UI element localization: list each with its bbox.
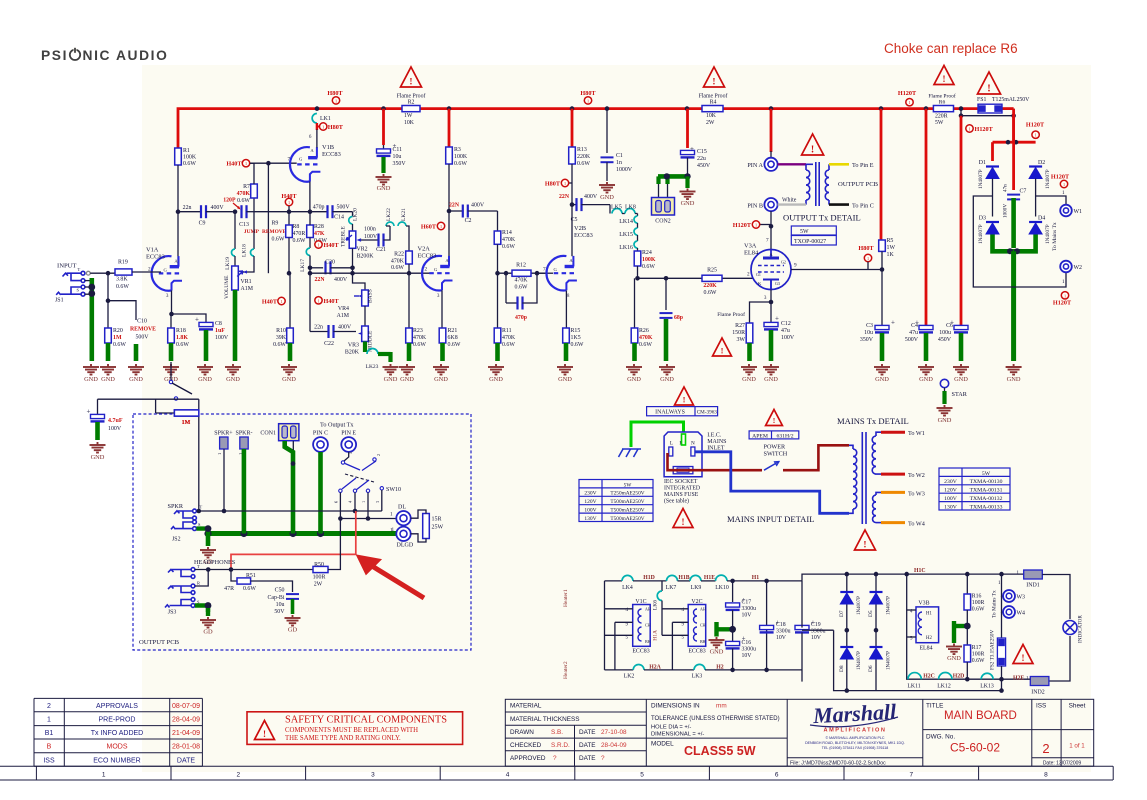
svg-text:!: !	[987, 84, 990, 95]
svg-text:470K: 470K	[514, 278, 528, 284]
svg-text:3.8K: 3.8K	[116, 277, 128, 283]
svg-text:SPKR-: SPKR-	[235, 431, 252, 437]
svg-text:0.6W: 0.6W	[448, 342, 461, 348]
svg-text:LK19: LK19	[225, 257, 231, 270]
earth wire green	[631, 422, 684, 447]
svg-text:GND: GND	[600, 194, 614, 201]
svg-text:MAINS INPUT DETAIL: MAINS INPUT DETAIL	[727, 514, 814, 524]
svg-text:MAINS FUSE: MAINS FUSE	[664, 492, 699, 498]
bus junction	[447, 106, 452, 111]
svg-text:TXMA-00131: TXMA-00131	[970, 488, 1003, 494]
tube V1C heater	[633, 605, 651, 647]
svg-text:JUMP: JUMP	[244, 229, 260, 235]
svg-text:IND1: IND1	[1026, 583, 1039, 589]
green gnd V3B	[954, 624, 967, 628]
test point H80T V3A anode	[864, 254, 871, 261]
svg-text:BH: BH	[700, 639, 706, 644]
warning triangle above FS1	[977, 72, 1000, 94]
svg-text:Heater1: Heater1	[563, 589, 569, 607]
svg-text:H2E: H2E	[1013, 676, 1024, 682]
svg-text:Flame Proof: Flame Proof	[397, 93, 426, 100]
ground C4	[918, 364, 934, 375]
svg-text:LK13: LK13	[980, 684, 994, 690]
green JS2 sleeve	[196, 529, 208, 534]
svg-text:470K: 470K	[413, 335, 427, 341]
svg-text:D1: D1	[979, 160, 986, 166]
bridge bottom green bar	[993, 235, 1036, 252]
svg-text:GND: GND	[627, 376, 641, 383]
indicator right wire	[1042, 575, 1070, 620]
bus junction	[924, 106, 929, 111]
svg-text:470K: 470K	[639, 335, 653, 341]
svg-text:GND: GND	[91, 454, 105, 461]
svg-text:C50: C50	[275, 588, 285, 594]
svg-text:LK11: LK11	[907, 684, 920, 690]
svg-text:25W: 25W	[432, 525, 444, 531]
resistor R3	[448, 109, 451, 147]
svg-text:47u: 47u	[781, 328, 790, 334]
resistor R11	[497, 273, 499, 328]
test point H120T W2	[1061, 292, 1068, 299]
svg-text:Flame Proof: Flame Proof	[928, 93, 956, 100]
svg-text:47u: 47u	[909, 330, 918, 336]
wire HP T row	[195, 569, 313, 571]
svg-text:R25: R25	[707, 268, 717, 274]
svg-text:H1E: H1E	[704, 575, 715, 581]
svg-text:C8: C8	[215, 321, 222, 327]
input sleeve green	[90, 278, 95, 361]
resistor R26	[634, 278, 636, 328]
svg-text:3: 3	[375, 501, 380, 503]
svg-text:0.6W: 0.6W	[272, 237, 285, 243]
svg-text:100V: 100V	[944, 496, 958, 502]
svg-text:To Pin C: To Pin C	[852, 203, 874, 210]
svg-text:H1A: H1A	[653, 630, 659, 641]
ground C11	[376, 174, 392, 185]
svg-text:1K5: 1K5	[571, 335, 581, 341]
svg-text:Flame Proof: Flame Proof	[699, 93, 728, 100]
svg-text:R5: R5	[887, 238, 894, 244]
svg-text:V1C: V1C	[635, 599, 646, 605]
svg-text:R21: R21	[448, 328, 458, 334]
resistor R13	[571, 109, 574, 147]
capacitor C2	[449, 210, 463, 212]
svg-text:SAFETY CRITICAL COMPONENTS: SAFETY CRITICAL COMPONENTS	[285, 715, 447, 726]
wire R50 to SW10	[328, 519, 340, 570]
svg-text:IND2: IND2	[1031, 690, 1044, 696]
svg-text:1 of 1: 1 of 1	[1069, 743, 1085, 750]
svg-text:5: 5	[348, 452, 353, 454]
svg-text:H120T: H120T	[898, 90, 917, 97]
svg-text:0.6W: 0.6W	[413, 342, 426, 348]
svg-text:470p: 470p	[515, 315, 527, 321]
links LK22 LK21	[383, 226, 390, 240]
wire to V2B grid	[537, 272, 553, 274]
svg-text:R17: R17	[972, 645, 982, 651]
svg-text:4: 4	[506, 771, 510, 778]
svg-text:Choke can replace R6: Choke can replace R6	[884, 41, 1018, 56]
svg-text:GND: GND	[282, 376, 296, 383]
svg-text:+: +	[195, 316, 199, 324]
svg-text:10u: 10u	[276, 602, 285, 608]
mains fuse table	[579, 480, 653, 522]
svg-text:INTEGRATED: INTEGRATED	[664, 486, 700, 492]
svg-text:1W: 1W	[404, 113, 413, 119]
svg-text:?: ?	[601, 755, 605, 762]
svg-text:R27: R27	[735, 323, 745, 329]
svg-text:1M: 1M	[182, 420, 191, 426]
svg-text:D2: D2	[1038, 160, 1045, 166]
svg-text:!: !	[942, 74, 945, 84]
svg-text:1: 1	[47, 716, 51, 723]
svg-text:BASS: BASS	[368, 289, 374, 303]
ground R21	[433, 364, 449, 375]
svg-text:100K: 100K	[183, 155, 197, 161]
svg-text:5W: 5W	[800, 229, 809, 235]
power switch	[764, 462, 779, 471]
sheet border ruler	[0, 766, 1113, 780]
warning triangle IEC	[673, 509, 693, 528]
indicator lamp	[1063, 621, 1077, 635]
output tx primary wire purple	[778, 163, 806, 165]
svg-text:MAINS Tx DETAIL: MAINS Tx DETAIL	[837, 416, 909, 426]
txma table	[939, 468, 1010, 510]
ground C15	[680, 189, 696, 200]
svg-text:120V: 120V	[944, 488, 958, 494]
ground bridge	[1006, 364, 1022, 375]
svg-text:To Mains Tx: To Mains Tx	[992, 590, 998, 618]
ground R27	[741, 364, 757, 375]
resistor R12	[512, 270, 531, 276]
diode D8	[840, 648, 853, 659]
svg-text:C4: C4	[911, 323, 918, 329]
svg-text:C14: C14	[334, 215, 344, 221]
svg-text:27-10-08: 27-10-08	[601, 729, 627, 736]
svg-text:C21: C21	[376, 247, 386, 253]
svg-text:1: 1	[288, 200, 290, 205]
svg-text:!: !	[721, 346, 724, 356]
resistor R27	[746, 323, 753, 343]
wire R3 to V2A plate	[448, 211, 450, 266]
wire input to R19	[90, 272, 115, 274]
ground LK23	[383, 364, 399, 375]
svg-text:100n: 100n	[364, 227, 376, 233]
svg-text:TOLERANCE (UNLESS OTHERWISE ST: TOLERANCE (UNLESS OTHERWISE STATED)	[651, 716, 780, 722]
svg-text:0.6W: 0.6W	[642, 264, 655, 270]
capacitor C4	[925, 109, 928, 325]
test point H80T V2B	[566, 182, 572, 184]
wire to pin E yellow	[829, 163, 849, 166]
wire VR1 to gnd	[233, 290, 238, 361]
warning triangle output tx	[802, 134, 824, 155]
svg-text:120P: 120P	[223, 198, 236, 204]
svg-text:CHECKED: CHECKED	[510, 742, 542, 749]
wire fuse link bypass	[961, 109, 1014, 116]
ground C12	[763, 364, 779, 375]
svg-text:MAIN BOARD: MAIN BOARD	[944, 710, 1017, 722]
connector PIN B	[764, 198, 777, 211]
svg-text:1: 1	[317, 298, 319, 303]
wire R9 remove column	[267, 163, 269, 273]
svg-text:1: 1	[587, 98, 589, 103]
svg-text:0.6W: 0.6W	[704, 290, 717, 296]
ground V3B	[946, 644, 962, 655]
heater top wire	[605, 580, 623, 582]
test point H80T V1B anode	[317, 126, 320, 128]
bridge top red tee	[991, 142, 994, 161]
svg-text:THE SAME TYPE AND RATING ONLY.: THE SAME TYPE AND RATING ONLY.	[285, 735, 401, 742]
svg-text:V2C: V2C	[691, 599, 702, 605]
white wire	[778, 203, 806, 205]
wire V1B plate	[316, 129, 318, 147]
svg-text:R23: R23	[413, 328, 423, 334]
wire V3A cathode	[770, 290, 772, 303]
svg-text:R24: R24	[642, 250, 652, 256]
approvals table	[34, 698, 202, 766]
secondary W2 wire	[881, 473, 905, 476]
svg-text:STAR: STAR	[952, 391, 968, 398]
svg-text:H80T: H80T	[580, 90, 596, 97]
svg-text:!: !	[409, 78, 412, 88]
svg-text:CON2: CON2	[655, 219, 670, 225]
wiper wire C21 to VR2	[359, 239, 379, 241]
svg-text:C16: C16	[742, 640, 752, 646]
wire CON1 pin2	[292, 441, 294, 450]
svg-text:H1C: H1C	[914, 568, 926, 574]
svg-text:2: 2	[425, 267, 428, 273]
main signal row	[310, 272, 433, 274]
svg-text:R16: R16	[972, 594, 982, 600]
heater left rail	[604, 581, 606, 670]
svg-text:PIN A: PIN A	[747, 162, 763, 169]
svg-text:0.6W: 0.6W	[273, 342, 286, 348]
svg-text:100V: 100V	[108, 426, 122, 432]
capacitor C8	[172, 314, 207, 322]
test point H120T below R6	[966, 125, 973, 132]
diode D1	[986, 168, 999, 179]
svg-text:0.6W: 0.6W	[502, 244, 515, 250]
svg-text:OUTPUT Tx DETAIL: OUTPUT Tx DETAIL	[783, 213, 861, 223]
svg-text:0.6W: 0.6W	[176, 342, 189, 348]
svg-text:+: +	[690, 145, 694, 153]
wire R10 column	[289, 273, 291, 328]
svg-text:H40T: H40T	[324, 298, 340, 305]
svg-text:C20: C20	[325, 260, 335, 266]
diode D2	[1029, 168, 1042, 179]
svg-text:22u: 22u	[697, 156, 706, 162]
svg-text:LK21: LK21	[401, 208, 407, 221]
svg-text:LK22: LK22	[386, 208, 392, 221]
ground R26	[626, 364, 642, 375]
svg-text:1: 1	[102, 771, 106, 778]
svg-text:470K: 470K	[502, 237, 516, 243]
svg-text:R10: R10	[276, 328, 286, 334]
svg-text:1: 1	[1062, 279, 1065, 285]
svg-text:ECC83: ECC83	[146, 254, 165, 261]
svg-text:R6: R6	[939, 100, 946, 106]
resistor R10	[287, 328, 294, 343]
svg-text:10V: 10V	[776, 635, 787, 641]
bus junction	[685, 106, 690, 111]
ground R10	[281, 364, 297, 375]
svg-text:1N4007P: 1N4007P	[857, 651, 862, 670]
svg-text:1: 1	[280, 299, 282, 304]
wire C10 removed column	[108, 301, 136, 320]
wire HP R	[195, 570, 208, 587]
svg-text:EL84: EL84	[919, 646, 932, 652]
svg-text:0.6W: 0.6W	[639, 342, 652, 348]
bus junction	[879, 106, 884, 111]
svg-text:DIMENSIONAL = +/-: DIMENSIONAL = +/-	[651, 732, 704, 738]
ground C8	[197, 364, 213, 375]
svg-text:GND: GND	[226, 376, 240, 383]
svg-text:DIMENSIONS IN: DIMENSIONS IN	[651, 703, 700, 710]
wire V1A cathode	[171, 291, 173, 315]
wire V3A anode row	[791, 269, 882, 271]
svg-text:DRAWN: DRAWN	[510, 729, 534, 736]
connector DLGD	[396, 527, 410, 541]
switch SW10	[341, 461, 344, 464]
wire R3 to C2 row	[448, 164, 450, 211]
svg-text:0.6W: 0.6W	[391, 265, 404, 271]
ground R20	[100, 364, 116, 375]
svg-text:4.7uF: 4.7uF	[108, 418, 123, 424]
speaker green bus	[208, 531, 397, 536]
svg-text:1: 1	[1064, 293, 1066, 298]
green gnd spur CON2	[658, 174, 688, 179]
svg-text:NIC AUDIO: NIC AUDIO	[83, 48, 169, 63]
svg-text:1: 1	[392, 527, 395, 533]
svg-text:REMOVE: REMOVE	[262, 229, 287, 235]
svg-text:LK9: LK9	[691, 585, 702, 591]
svg-text:IEC SOCKET: IEC SOCKET	[664, 479, 698, 485]
potentiometer VR3 middle	[364, 306, 366, 326]
resistor R4 in bus	[702, 106, 723, 112]
svg-text:GND: GND	[742, 376, 756, 383]
svg-text:Sheet: Sheet	[1069, 703, 1086, 710]
green PIN C drop	[318, 452, 323, 534]
wire R24 to grid row	[637, 266, 639, 278]
resistor R18	[170, 314, 172, 328]
svg-text:H1: H1	[926, 612, 932, 617]
svg-text:JS1: JS1	[55, 298, 64, 304]
svg-text:0.6W: 0.6W	[502, 342, 515, 348]
V3A grid row	[638, 277, 754, 279]
svg-text:TITLE: TITLE	[926, 703, 943, 710]
svg-text:500V: 500V	[337, 205, 351, 211]
svg-text:C18: C18	[776, 622, 786, 628]
svg-text:R4: R4	[710, 100, 717, 106]
svg-text:G2: G2	[781, 260, 786, 265]
svg-text:LK17: LK17	[300, 259, 306, 272]
svg-text:400V: 400V	[471, 203, 485, 209]
star point	[940, 379, 948, 387]
wire V1B cathode	[309, 182, 311, 212]
wire R20 column	[107, 273, 109, 328]
capacitor 68p	[665, 278, 667, 310]
svg-text:GND: GND	[938, 417, 952, 424]
svg-text:R50: R50	[314, 562, 324, 568]
svg-text:H40T: H40T	[262, 299, 278, 306]
svg-text:GND: GND	[681, 200, 695, 207]
svg-text:To Pin E: To Pin E	[852, 162, 874, 169]
secondary W3 wire	[881, 491, 905, 494]
svg-text:LK1: LK1	[320, 116, 331, 122]
earth symbol	[619, 449, 642, 457]
capacitor C22	[310, 331, 329, 333]
svg-text:L: L	[670, 441, 673, 447]
svg-text:100V: 100V	[215, 335, 229, 341]
svg-text:(See table): (See table)	[664, 498, 689, 505]
svg-text:ECO NUMBER: ECO NUMBER	[93, 757, 140, 764]
svg-text:0.6W: 0.6W	[972, 658, 985, 664]
links LK11 LK12 LK13 arcs	[908, 673, 921, 680]
svg-text:Tx INFO ADDED: Tx INFO ADDED	[91, 730, 144, 737]
svg-text:GND: GND	[377, 185, 391, 192]
svg-text:22N: 22N	[315, 277, 326, 283]
svg-text:H40T: H40T	[226, 161, 242, 168]
svg-text:TXMA-00133: TXMA-00133	[970, 504, 1003, 510]
svg-text:H2A: H2A	[649, 665, 661, 671]
svg-text:V3A: V3A	[744, 243, 757, 250]
drawing sheet background	[142, 65, 1091, 772]
svg-text:+: +	[87, 408, 91, 416]
green CON1 drop	[285, 441, 293, 534]
svg-text:1N4007P: 1N4007P	[978, 169, 984, 189]
wire bridge mid	[992, 179, 994, 217]
svg-text:150R: 150R	[732, 330, 745, 336]
svg-text:LK2: LK2	[624, 674, 635, 680]
svg-text:PIN B: PIN B	[747, 203, 763, 210]
capacitor C1	[606, 109, 608, 153]
capacitor C19	[795, 625, 809, 629]
heater bottom wire	[605, 669, 634, 671]
table output tx	[791, 226, 836, 245]
wire LK18 column	[253, 212, 255, 249]
svg-text:LK10: LK10	[715, 585, 729, 591]
resistor R22	[406, 251, 413, 264]
svg-text:DL: DL	[398, 505, 406, 511]
wire C9 to C13	[233, 209, 238, 214]
warning triangle R27	[713, 338, 732, 356]
svg-text:mm: mm	[716, 703, 727, 710]
connector PIN E	[341, 437, 356, 452]
svg-text:LK16: LK16	[619, 245, 633, 251]
svg-text:T250mAE250V: T250mAE250V	[610, 491, 644, 497]
svg-text:D3: D3	[979, 216, 986, 222]
ground C10	[128, 364, 144, 375]
svg-text:MODS: MODS	[107, 744, 128, 751]
svg-text:450V: 450V	[938, 337, 952, 343]
pad IND1	[1024, 570, 1043, 579]
svg-text:Date: 13/07/2009: Date: 13/07/2009	[1043, 760, 1082, 766]
red wire link	[231, 511, 356, 570]
wire W1 connection	[1036, 196, 1066, 204]
svg-text:3300u: 3300u	[742, 606, 757, 612]
svg-text:2: 2	[747, 272, 750, 278]
svg-text:3300u: 3300u	[811, 629, 826, 635]
svg-text:TXMA-00132: TXMA-00132	[970, 496, 1003, 502]
connector PIN C	[313, 437, 328, 452]
svg-text:S.R.D.: S.R.D.	[551, 742, 570, 749]
wires V2C	[662, 608, 688, 610]
svg-text:C12: C12	[781, 321, 791, 327]
svg-text:2: 2	[376, 454, 381, 456]
wire PIN B to V3A	[770, 211, 772, 249]
svg-text:5: 5	[640, 771, 644, 778]
resistor R24	[634, 251, 641, 266]
svg-text:T500mAE250V: T500mAE250V	[610, 508, 644, 514]
